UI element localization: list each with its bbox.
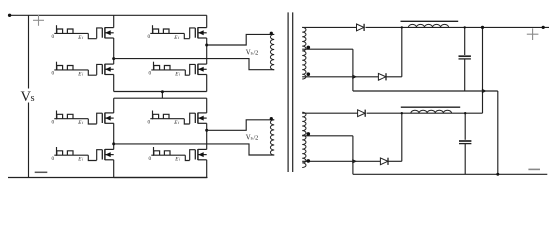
svg-text:0: 0 (52, 34, 55, 40)
svg-text:0: 0 (52, 71, 55, 77)
svg-text:/2: /2 (253, 50, 258, 57)
svg-text:0: 0 (149, 156, 152, 162)
svg-text:0: 0 (52, 156, 55, 162)
svg-text:/2: /2 (253, 135, 258, 142)
svg-text:0: 0 (148, 119, 151, 125)
svg-text:s: s (251, 51, 253, 57)
svg-text:s: s (31, 93, 35, 104)
svg-text:0: 0 (149, 71, 152, 77)
svg-text:0: 0 (52, 119, 55, 125)
svg-text:0: 0 (148, 34, 151, 40)
svg-text:s: s (251, 136, 253, 142)
